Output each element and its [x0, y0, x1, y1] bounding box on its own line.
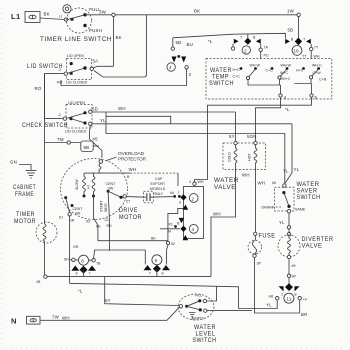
svg-text:YL: YL: [279, 220, 285, 225]
wire hot coil to fuse: [255, 170, 257, 241]
svg-text:7: 7: [178, 191, 180, 195]
svg-text:BK: BK: [96, 225, 101, 229]
wire temp out 4 to 5GN valve: [256, 97, 281, 141]
svg-text:VALVE: VALVE: [302, 243, 323, 250]
svg-text:LI: LI: [59, 15, 62, 19]
svg-text:DRAIN: DRAIN: [262, 206, 274, 210]
svg-text:WDG: WDG: [104, 203, 108, 212]
overload protector: [99, 160, 103, 164]
svg-text:H8: H8: [269, 295, 274, 299]
water level bellows: [189, 313, 196, 320]
svg-text:L1: L1: [11, 12, 21, 21]
svg-text:4: 4: [284, 95, 287, 100]
svg-text:*L: *L: [208, 39, 213, 44]
wire N line: [41, 319, 168, 321]
svg-text:7W: 7W: [52, 315, 60, 320]
connector circled 11: [284, 293, 294, 303]
svg-text:1B: 1B: [36, 280, 41, 284]
wire lid 5A output: [93, 66, 113, 68]
svg-text:9P: 9P: [292, 275, 297, 279]
saver contacts: [282, 191, 285, 194]
svg-text:5A: 5A: [93, 59, 99, 64]
svg-text:WH: WH: [213, 212, 221, 217]
svg-text:CENT: CENT: [106, 182, 117, 186]
capacitor wire: [126, 196, 146, 199]
svg-text:DRIVE: DRIVE: [119, 207, 138, 214]
motor top bus: [84, 172, 130, 174]
svg-text:BK: BK: [44, 12, 50, 17]
wire drop to connector 4: [172, 38, 174, 47]
wire left spine: [44, 74, 46, 224]
svg-text:GR: GR: [73, 245, 79, 249]
svg-text:LID CLOSED: LID CLOSED: [65, 130, 87, 134]
wire winding 22 down: [108, 191, 109, 251]
svg-text:ONLY: ONLY: [154, 192, 164, 196]
svg-text:SAME: SAME: [295, 208, 306, 212]
wire winding 53 down: [94, 196, 98, 241]
svg-text:7: 7: [149, 272, 151, 276]
svg-text:M: M: [168, 230, 171, 234]
connector circled 10: [292, 46, 302, 56]
svg-text:BR: BR: [301, 312, 308, 317]
wire connector top pin: [193, 182, 196, 185]
svg-text:HOT: HOT: [248, 153, 252, 161]
connector circled 2: [242, 46, 250, 54]
connector assembly circled 2: [247, 35, 249, 39]
wire temp out 5 to left: [195, 97, 312, 182]
svg-text:CAP: CAP: [155, 177, 163, 181]
svg-text:PROTECTOR: PROTECTOR: [118, 157, 147, 162]
svg-text:WH: WH: [258, 181, 266, 186]
wire branch: [106, 116, 171, 124]
temp switch arm 1: [246, 76, 249, 79]
water temp switch box: [206, 59, 332, 100]
svg-text:BK: BK: [116, 35, 122, 40]
svg-text:11: 11: [287, 296, 292, 301]
wire bus1 drop to water level: [105, 277, 180, 306]
svg-text:52: 52: [171, 242, 175, 246]
diverter valve: [278, 235, 300, 257]
wire 5B rail: [173, 33, 286, 38]
svg-text:8: 8: [162, 272, 164, 276]
svg-text:YL: YL: [266, 303, 272, 308]
svg-text:6: 6: [76, 272, 78, 276]
svg-text:WH: WH: [198, 180, 204, 184]
svg-text:5D: 5D: [92, 107, 98, 112]
svg-text:WH-W: WH-W: [250, 64, 261, 68]
wire FILL up to bus2: [207, 286, 217, 301]
svg-text:53: 53: [86, 220, 90, 224]
svg-text:WH: WH: [314, 55, 320, 59]
svg-text:5B: 5B: [176, 40, 182, 45]
svg-text:4: 4: [169, 65, 172, 70]
wire check lower output YL: [92, 123, 292, 125]
svg-text:TIMER LINE SWITCH: TIMER LINE SWITCH: [40, 36, 112, 43]
svg-text:TIMER: TIMER: [16, 211, 35, 218]
svg-text:SWITCH: SWITCH: [209, 80, 234, 87]
valve pin circles: [234, 141, 237, 144]
svg-text:YL: YL: [283, 169, 289, 174]
drive motor dashed circle: [61, 159, 128, 220]
svg-text:8: 8: [81, 259, 84, 264]
svg-text:5GN: 5GN: [247, 134, 257, 139]
svg-text:4: 4: [192, 227, 195, 232]
temp switch bottom rails: [248, 84, 281, 86]
connector arrow left of diamond: [285, 39, 290, 44]
wire valve left coil to bus1: [211, 170, 236, 277]
wire box drop: [94, 15, 146, 77]
wire saver to diverter: [288, 213, 290, 234]
svg-text:9B: 9B: [84, 145, 90, 150]
centrifugal switch lower: [64, 196, 67, 199]
svg-text:#3: #3: [169, 223, 173, 227]
svg-text:BU: BU: [187, 42, 194, 47]
wire 8 right pin over to 6: [94, 250, 146, 265]
svg-text:GN: GN: [10, 160, 17, 165]
connector circled 4 top: [167, 63, 175, 71]
bus 1: [44, 275, 47, 278]
water saver switch box: [275, 187, 295, 211]
svg-text:2: 2: [189, 72, 192, 77]
connector diamond upper: [180, 194, 186, 200]
connector arrow mid down: [179, 218, 185, 223]
temp contacts row of dots: [240, 67, 243, 70]
wire check drop to overload: [90, 126, 102, 159]
svg-text:SWITCH: SWITCH: [193, 337, 217, 344]
svg-text:SW: SW: [75, 212, 81, 216]
connector circled 2: [189, 194, 198, 203]
svg-text:TM: TM: [57, 137, 64, 142]
wire BK rail above 6: [98, 240, 168, 242]
node 1W: [297, 13, 300, 16]
wire connector 11 right pin down: [299, 300, 301, 313]
svg-text:WH-C: WH-C: [312, 64, 322, 68]
svg-text:*L: *L: [78, 289, 83, 294]
wire TM to timer motor: [45, 142, 82, 144]
connector arrows above circled 4: [172, 57, 177, 63]
svg-text:*L: *L: [285, 107, 290, 112]
timer motor: [36, 222, 57, 243]
svg-text:#5: #5: [272, 181, 276, 185]
svg-text:7B: 7B: [96, 262, 101, 266]
wire L1 to timer line switch: [40, 18, 64, 20]
wire ground stub: [19, 165, 31, 171]
fuse: [254, 232, 257, 235]
wire lid pivot to check switch: [45, 74, 65, 119]
svg-text:1W: 1W: [287, 9, 295, 14]
wire pin 10 drop: [310, 51, 312, 59]
bus 2: [70, 283, 278, 308]
wire 1W drop to connector 10: [298, 17, 300, 40]
svg-text:FILL: FILL: [195, 294, 202, 298]
svg-text:VALVE: VALVE: [214, 184, 236, 191]
lid switch: [67, 59, 92, 80]
wire YL rail to water saver right: [285, 124, 292, 184]
wire pin 2 drop: [260, 52, 262, 59]
svg-text:CHECK SWITCH: CHECK SWITCH: [22, 122, 68, 129]
svg-text:CABINET: CABINET: [13, 184, 36, 191]
connector arrows 11: [279, 286, 284, 291]
connector circled 8: [79, 255, 89, 265]
wire WH drop to 5Y valve: [235, 112, 237, 142]
dashed wire to connector: [130, 172, 178, 174]
svg-text:COLD: COLD: [228, 152, 232, 162]
svg-text:LID OPEN: LID OPEN: [67, 54, 84, 58]
svg-text:1: 1: [281, 293, 283, 297]
svg-text:5B: 5B: [288, 28, 294, 33]
connector arrow right of 10: [306, 39, 311, 44]
svg-text:+9: +9: [303, 298, 307, 302]
connector diamond 11: [285, 283, 293, 291]
wire mid rail to water saver left: [106, 112, 285, 184]
connector arrow mid up: [183, 205, 189, 210]
capacitor: [146, 193, 148, 201]
wire diverter to connector 11: [288, 259, 290, 284]
winding HI: [92, 173, 95, 195]
svg-text:9: 9: [179, 201, 181, 205]
svg-text:3W: 3W: [99, 10, 107, 15]
svg-text:3P: 3P: [257, 262, 262, 266]
svg-text:OVERLOAD: OVERLOAD: [118, 151, 145, 156]
timer line switch dial: [63, 5, 71, 13]
junction node: [112, 13, 115, 16]
svg-text:2: 2: [244, 48, 247, 53]
svg-text:8: 8: [295, 293, 297, 297]
svg-text:#9: #9: [292, 264, 296, 268]
svg-text:#5: #5: [93, 137, 99, 142]
connector circled 4: [189, 224, 198, 233]
svg-text:H+C: H+C: [296, 69, 304, 73]
svg-text:#4: #4: [170, 191, 174, 195]
svg-text:C+C: C+C: [266, 69, 274, 73]
svg-text:6Y: 6Y: [105, 298, 111, 303]
svg-text:RO: RO: [35, 86, 42, 91]
svg-text:7: 7: [89, 272, 91, 276]
water valve box: [223, 143, 266, 170]
svg-text:RO: RO: [57, 81, 63, 85]
run winding SLOW: [83, 173, 86, 195]
svg-text:LID CLOSED: LID CLOSED: [66, 81, 88, 85]
svg-text:EXPORT: EXPORT: [151, 182, 167, 186]
ground cabinet frame: [26, 170, 37, 172]
svg-text:WH: WH: [62, 316, 70, 321]
water level switch: [178, 294, 214, 320]
svg-text:PU: PU: [264, 54, 269, 58]
svg-text:WH: WH: [242, 173, 250, 178]
svg-text:-2: -2: [58, 113, 61, 117]
check switch: [66, 105, 92, 129]
wire fuse down and right: [255, 257, 300, 313]
svg-text:5H: 5H: [64, 258, 69, 262]
wire N diagonal to water level pivot: [167, 307, 179, 320]
svg-text:MOTOR: MOTOR: [119, 214, 142, 221]
svg-text:6: 6: [155, 258, 158, 263]
connector arrow bottom: [183, 235, 189, 240]
svg-text:FUSE: FUSE: [259, 233, 276, 240]
svg-text:MOTOR: MOTOR: [14, 218, 36, 225]
svg-text:-2: -2: [58, 68, 61, 72]
svg-text:4: 4: [189, 180, 191, 184]
temp switch arm 2: [278, 76, 281, 79]
valve cold coil: [234, 145, 237, 170]
connector 6 arrows: [144, 265, 152, 270]
connector 8 arrows: [71, 266, 79, 271]
valve hot coil: [254, 145, 257, 170]
svg-text:2: 2: [192, 196, 195, 201]
svg-text:FRAME: FRAME: [15, 191, 34, 198]
timer line switch: [64, 18, 67, 21]
svg-text:WATER: WATER: [214, 177, 239, 184]
svg-text:WH: WH: [129, 167, 137, 172]
svg-text:C+C: C+C: [233, 75, 241, 79]
svg-text:H+C: H+C: [233, 68, 241, 72]
svg-text:HI: HI: [87, 185, 91, 189]
motor connector box: [184, 187, 204, 239]
svg-text:BK: BK: [194, 9, 200, 14]
svg-text:SWITCH: SWITCH: [297, 194, 321, 201]
svg-text:MODELS: MODELS: [150, 187, 166, 191]
svg-text:WH-W: WH-W: [281, 64, 292, 68]
wire pin drop to RO line: [186, 69, 188, 86]
svg-text:10: 10: [293, 49, 299, 54]
connector circled 6: [152, 255, 162, 265]
svg-text:YL: YL: [100, 118, 106, 123]
temp switch arm 3: [309, 76, 312, 79]
wire motor GR down: [69, 216, 71, 283]
svg-text:C+B: C+B: [319, 78, 327, 82]
wire lower contact right: [207, 310, 252, 312]
svg-text:BK: BK: [151, 237, 156, 241]
svg-text:7A: 7A: [264, 46, 269, 50]
svg-text:PUSH: PUSH: [89, 28, 102, 33]
svg-text:22: 22: [105, 218, 109, 222]
connector diamond lower: [180, 226, 186, 232]
svg-text:5J: 5J: [59, 216, 63, 220]
connector diamond above circled 10: [295, 38, 302, 46]
wire check 5D output WH: [92, 111, 236, 113]
svg-text:LID OPEN: LID OPEN: [68, 101, 85, 105]
svg-text:WH: WH: [118, 106, 126, 111]
wire lower pin from motor: [160, 228, 180, 230]
wire RO line to connector 4 pin: [61, 80, 187, 86]
resistor 9B: [81, 141, 93, 152]
svg-text:EMPTY: EMPTY: [193, 317, 205, 321]
svg-text:5Y: 5Y: [229, 134, 235, 139]
svg-text:CENT: CENT: [73, 207, 84, 211]
capacitor junction dots: [173, 195, 176, 198]
svg-text:SLOW: SLOW: [75, 179, 79, 190]
svg-text:N: N: [11, 317, 17, 326]
wire BK drop: [113, 17, 115, 67]
svg-text:5: 5: [315, 95, 318, 100]
wire top BK rail: [85, 14, 297, 16]
wire step down from mid arrow: [168, 208, 184, 240]
svg-text:YL: YL: [294, 167, 300, 172]
svg-text:START: START: [100, 200, 104, 212]
